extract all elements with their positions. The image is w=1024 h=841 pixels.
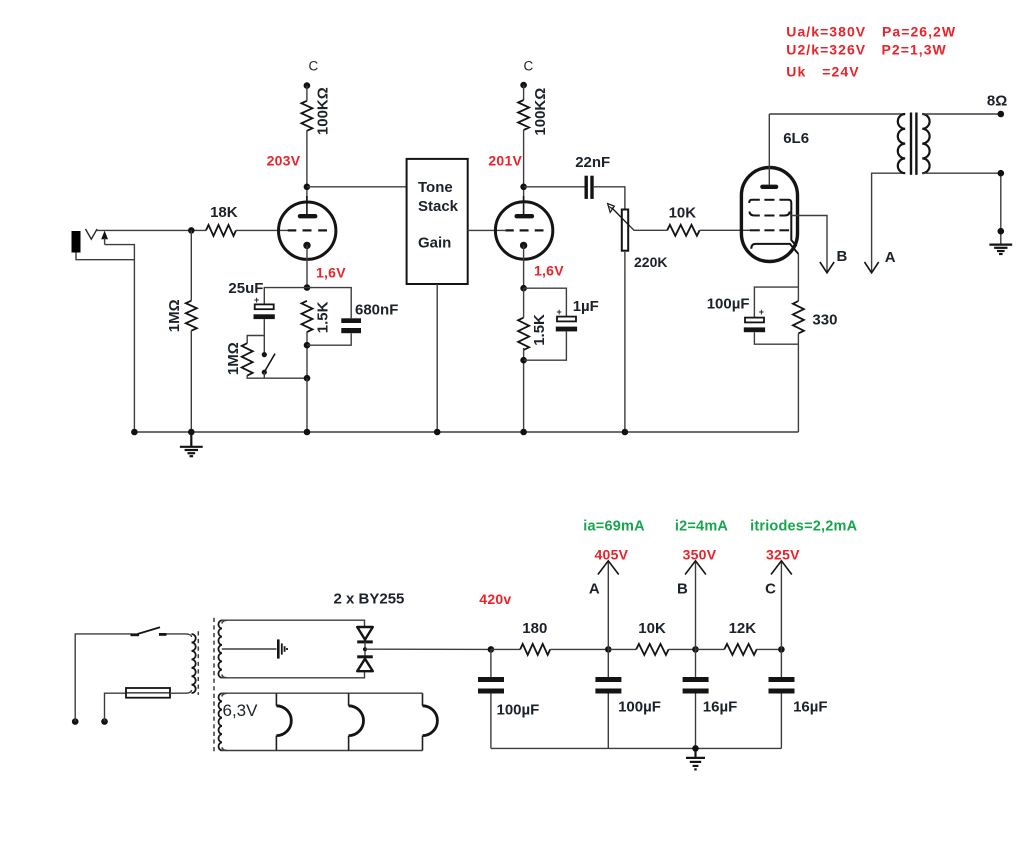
svg-text:itriodes=2,2mA: itriodes=2,2mA — [750, 519, 857, 535]
label Uk=24V — [786, 64, 859, 80]
wire cathode 6L6 down — [797, 254, 799, 301]
wire mains left to switch — [75, 634, 131, 722]
svg-text:6L6: 6L6 — [783, 130, 809, 147]
svg-text:P2=1,3W: P2=1,3W — [882, 41, 947, 57]
wire 1.5K bottom — [306, 332, 308, 379]
svg-text:16µF: 16µF — [793, 699, 828, 716]
wire node A to 10K — [608, 648, 636, 650]
svg-text:1,6V: 1,6V — [316, 265, 346, 281]
svg-text:1.5K: 1.5K — [531, 314, 548, 346]
svg-text:Tone: Tone — [418, 179, 453, 196]
svg-text:ia=69mA: ia=69mA — [583, 519, 645, 535]
diode D2 — [357, 657, 373, 671]
mains terminal right — [101, 718, 108, 725]
arrow jack tip contact — [101, 231, 108, 245]
ground symbol filter — [686, 748, 705, 769]
pentode 6L6 plate — [762, 114, 776, 187]
svg-text:+: + — [254, 295, 259, 305]
triode V1 cathode — [303, 242, 310, 288]
wire 10K to 6L6 grid — [700, 229, 750, 231]
arrow A supply — [865, 262, 879, 273]
capacitor 680nF — [307, 288, 361, 346]
wire secondary top to speaker — [922, 113, 1001, 115]
wire jack sleeve to ground drop — [76, 253, 134, 260]
capacitor 16uF filter3 — [683, 649, 709, 748]
node cathode V1 — [304, 284, 311, 291]
svg-text:10K: 10K — [669, 205, 697, 222]
pentode 6L6 beam plates g3 — [749, 200, 796, 247]
wire HV top to diode D1 — [222, 620, 365, 627]
svg-text:330: 330 — [812, 312, 837, 329]
node secondary bottom — [998, 170, 1005, 177]
svg-text:B: B — [837, 248, 848, 265]
pentode 6L6 screen g2 — [749, 212, 789, 216]
wire jack tip to 18K — [97, 229, 206, 231]
wire cathode bottom to bus — [306, 378, 308, 432]
node C stage1 — [304, 82, 311, 89]
node 1.5K 680nF join — [304, 342, 311, 349]
wire coil corner curves T1 — [222, 620, 227, 750]
wire arrow contact to ground drop — [105, 245, 135, 432]
svg-text:B: B — [677, 581, 688, 598]
node speaker return — [998, 228, 1005, 235]
wire 1M to ground bus — [190, 331, 192, 432]
wire 180 to node A — [550, 648, 608, 650]
svg-text:203V: 203V — [267, 153, 301, 169]
svg-text:350V: 350V — [683, 547, 717, 563]
node bus pot — [622, 429, 629, 436]
resistor 10K filter — [636, 644, 668, 655]
svg-text:201V: 201V — [488, 153, 522, 169]
svg-text:+: + — [759, 307, 764, 317]
resistor 10K grid 6L6 — [667, 225, 699, 236]
transformer T1 primary — [192, 634, 196, 693]
wire heater bus top — [222, 692, 423, 694]
wire plate V2 to 22nF — [524, 186, 585, 188]
resistor 1M switch bleeder — [242, 343, 253, 375]
triode V2 grid — [505, 229, 543, 231]
node plate V2 — [520, 184, 527, 191]
wire 1M bottom to cathode line — [247, 375, 307, 378]
svg-text:1µF: 1µF — [573, 298, 599, 315]
heater filament V4 — [422, 693, 424, 750]
wire cathode V2 leads — [523, 288, 525, 433]
wire transformer primary bottom to A arrow — [872, 173, 906, 271]
svg-text:18K: 18K — [210, 204, 238, 221]
svg-text:i2=4mA: i2=4mA — [675, 519, 729, 535]
arrow node A supply — [598, 561, 619, 650]
wire node to 180 — [491, 648, 520, 650]
input jack J1 — [72, 229, 98, 253]
svg-text:16µF: 16µF — [703, 699, 738, 716]
svg-text:100µF: 100µF — [707, 296, 750, 313]
node cathode V2 bottom — [520, 357, 527, 364]
resistor 100K plate load V2 — [518, 100, 529, 130]
triode V2 plate — [517, 196, 532, 216]
svg-text:C: C — [765, 581, 776, 598]
resistor 330 cathode 6L6 — [793, 301, 804, 333]
pentode 6L6 envelope — [741, 168, 797, 262]
wire HV center tap — [222, 648, 277, 650]
node rectifier output — [363, 647, 367, 651]
svg-text:12K: 12K — [729, 620, 757, 637]
svg-text:U2/k=326V: U2/k=326V — [786, 41, 866, 57]
wire tone stack out to V2 grid — [468, 229, 505, 231]
transformer T2 primary — [898, 114, 905, 173]
arrow node C supply — [771, 561, 792, 650]
resistor 180 — [520, 644, 550, 655]
svg-text:+: + — [557, 307, 562, 317]
node filter ground — [692, 745, 699, 752]
wire screen g2 to B arrow — [790, 216, 827, 272]
wire cathode node left to 25uF — [264, 288, 307, 305]
box tone stack — [407, 159, 468, 284]
node B — [692, 646, 699, 653]
node bus 1M — [188, 429, 195, 436]
svg-text:8Ω: 8Ω — [987, 92, 1007, 109]
svg-text:Uk: Uk — [786, 64, 806, 80]
resistor 12K filter — [724, 644, 756, 655]
ground symbol speaker — [989, 245, 1012, 254]
transformer T1 core secondary side — [213, 618, 215, 754]
node A — [605, 646, 612, 653]
capacitor 25uF bypass — [254, 295, 275, 319]
capacitor 100uF filter1 — [478, 649, 504, 748]
svg-text:Gain: Gain — [418, 235, 451, 252]
node C supply — [778, 646, 785, 653]
svg-text:6,3V: 6,3V — [223, 701, 259, 720]
svg-text:2 x BY255: 2 x BY255 — [334, 591, 405, 608]
svg-text:220K: 220K — [634, 254, 667, 270]
wire switch to primary — [167, 634, 192, 637]
svg-text:22nF: 22nF — [575, 154, 610, 171]
wire heater bus bottom — [222, 750, 423, 752]
capacitor 1uF bypass V2 — [524, 288, 578, 360]
node speaker top — [998, 111, 1005, 118]
svg-text:100KΩ: 100KΩ — [315, 87, 332, 135]
wire mains right to fuse — [105, 693, 127, 721]
transformer T2 secondary — [922, 114, 929, 173]
svg-text:Stack: Stack — [418, 198, 459, 215]
capacitor 100uF filter2 — [595, 649, 621, 748]
resistor 1.5K cathode V1 — [302, 301, 313, 332]
mains terminal left — [72, 718, 79, 725]
node bus tone stack — [434, 429, 441, 436]
svg-text:420v: 420v — [479, 591, 511, 607]
resistor 18K grid stopper — [206, 225, 236, 236]
wire pot bottom to bus — [624, 252, 626, 432]
node cathode bottom — [304, 375, 311, 382]
wire node B to 12K — [696, 648, 725, 650]
pentode 6L6 cathode — [751, 244, 798, 254]
wire C to 100K — [306, 86, 308, 101]
svg-text:=24V: =24V — [822, 64, 859, 80]
svg-text:100KΩ: 100KΩ — [532, 88, 549, 136]
ground symbol center tap — [278, 639, 287, 658]
node input junction — [188, 227, 195, 234]
svg-text:Ua/k=380V: Ua/k=380V — [786, 24, 866, 40]
wire secondary bottom to ground — [922, 173, 1001, 244]
wire HV bottom to diode D2 — [222, 671, 365, 677]
svg-text:1.5K: 1.5K — [315, 301, 332, 333]
capacitor 22nF coupling — [585, 176, 594, 199]
resistor 1M grid leak — [186, 301, 197, 331]
wire plate V1 to tone stack — [307, 186, 407, 188]
wire filter bottom bus — [491, 747, 782, 749]
node bus stage2 cathode — [520, 429, 527, 436]
node bus stage1 cathode — [304, 429, 311, 436]
svg-text:Pa=26,2W: Pa=26,2W — [882, 24, 956, 40]
svg-text:100µF: 100µF — [497, 702, 540, 719]
wire 330 to bus — [797, 334, 799, 433]
arrow node B supply — [685, 561, 706, 650]
node plate V1 — [304, 184, 311, 191]
transformer T2 core — [911, 113, 916, 175]
svg-text:A: A — [589, 581, 600, 598]
svg-text:405V: 405V — [595, 547, 629, 563]
heater filament V3 — [348, 693, 350, 750]
potentiometer 220K — [608, 204, 668, 251]
wire 18K to triode V1 grid — [236, 229, 288, 231]
wire tee to 1M switch resistor — [247, 336, 264, 344]
svg-text:325V: 325V — [766, 547, 800, 563]
svg-text:1,6V: 1,6V — [534, 263, 564, 279]
switch mains — [131, 627, 167, 635]
transformer T1 core primary side — [197, 631, 199, 695]
triode V1 plate — [300, 196, 315, 216]
svg-text:680nF: 680nF — [355, 302, 398, 319]
wire input node down to 1M — [190, 230, 192, 300]
wire C to 100K stage2 — [523, 85, 525, 100]
capacitor 16uF filter4 — [769, 649, 795, 748]
resistor 100K plate load V1 — [301, 101, 312, 131]
wire 22nF to pot — [594, 187, 625, 209]
fuse F1 — [126, 688, 170, 698]
svg-text:A: A — [885, 249, 896, 266]
transformer T1 HV secondary — [218, 620, 221, 678]
capacitor 100uF cathode 6L6 — [744, 287, 799, 344]
triode V1 grid — [288, 229, 327, 231]
wire 100K to plate node V1 — [306, 130, 308, 201]
svg-text:180: 180 — [522, 620, 547, 637]
wire 100K to plate node V2 — [523, 130, 525, 201]
triode V2 cathode — [520, 242, 527, 289]
svg-text:C: C — [309, 58, 319, 73]
wire 10K to node B — [668, 648, 695, 650]
svg-text:1MΩ: 1MΩ — [166, 299, 183, 332]
transformer T1 heater winding — [219, 693, 222, 750]
triode V2 envelope — [495, 202, 552, 259]
arrow B supply — [820, 262, 834, 273]
diode D1 — [357, 627, 373, 657]
node cathode V2 — [520, 285, 527, 292]
wire plate 6L6 to transformer — [769, 113, 905, 115]
resistor 1.5K cathode V2 — [518, 318, 529, 350]
svg-text:C: C — [524, 58, 534, 73]
node bus left — [131, 429, 138, 436]
heater filament V1V2 — [275, 693, 277, 750]
ground symbol stage1 — [180, 432, 203, 456]
node filter input — [488, 646, 495, 653]
node C stage2 — [520, 82, 527, 89]
wire rectifier to filter — [365, 648, 491, 650]
switch SW1 — [262, 352, 275, 375]
ground bus top section — [134, 431, 798, 433]
wire fuse to primary — [170, 690, 192, 693]
wire 25uF to switch — [263, 319, 265, 354]
wire tone stack bottom to bus — [436, 284, 438, 432]
wire switch bottom stub — [263, 372, 265, 378]
svg-text:10K: 10K — [638, 620, 666, 637]
wire 12K to node C — [757, 648, 782, 650]
svg-text:100µF: 100µF — [618, 699, 661, 716]
svg-text:1MΩ: 1MΩ — [225, 342, 242, 375]
triode V1 envelope — [279, 202, 336, 259]
pentode 6L6 control grid g1 — [750, 229, 789, 231]
